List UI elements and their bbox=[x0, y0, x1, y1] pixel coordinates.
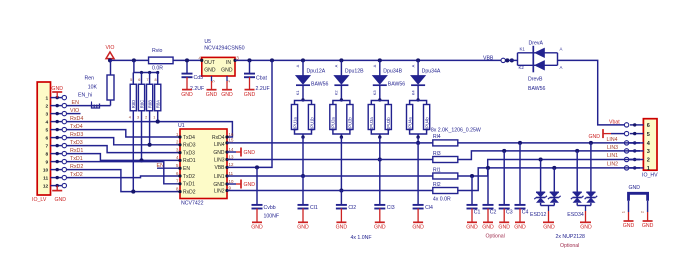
svg-text:Dpu34B: Dpu34B bbox=[383, 69, 402, 75]
svg-text:BAW56: BAW56 bbox=[311, 81, 329, 87]
svg-text:7: 7 bbox=[46, 144, 49, 150]
svg-text:RPU4a: RPU4a bbox=[407, 117, 412, 131]
wire EN stub U1 bbox=[157, 167, 180, 169]
svg-text:RPU3b: RPU3b bbox=[386, 117, 391, 131]
svg-text:3: 3 bbox=[46, 112, 49, 118]
resistor pair RPU2 bbox=[340, 98, 343, 101]
svg-text:A: A bbox=[560, 47, 563, 52]
svg-text:13: 13 bbox=[229, 154, 234, 159]
svg-text:BAW56: BAW56 bbox=[528, 86, 546, 92]
wire LIN2 right bbox=[458, 168, 640, 191]
capacitor C4 bbox=[519, 143, 521, 205]
svg-text:RPU2b: RPU2b bbox=[348, 117, 353, 131]
resistor pair RPU3 bbox=[378, 98, 381, 101]
svg-text:DrevB: DrevB bbox=[528, 76, 543, 82]
resistor array R8 bodies bbox=[132, 73, 134, 85]
resistor pair RPU4 bbox=[416, 98, 419, 101]
op-amp U1 body bbox=[180, 129, 227, 199]
capacitor Cl1 bbox=[302, 176, 304, 205]
wire LIN3 bbox=[227, 159, 433, 161]
wire RxD3 bbox=[67, 138, 181, 145]
svg-text:VIO: VIO bbox=[106, 45, 115, 51]
svg-text:Cl4: Cl4 bbox=[425, 205, 433, 211]
svg-text:6: 6 bbox=[46, 136, 49, 142]
net flag EN_hi bbox=[91, 102, 93, 104]
svg-text:VBB: VBB bbox=[214, 165, 225, 171]
capacitor Cl2 bbox=[340, 191, 342, 205]
wire Drev top branch bbox=[518, 52, 558, 54]
wire ESD34 join bbox=[577, 205, 591, 207]
svg-text:GND: GND bbox=[589, 134, 601, 140]
svg-text:GND: GND bbox=[543, 224, 555, 230]
svg-text:2x NUP2128: 2x NUP2128 bbox=[556, 234, 586, 240]
svg-text:R8B: R8B bbox=[147, 100, 152, 108]
svg-text:GND: GND bbox=[213, 182, 225, 188]
ground IO_HV pin5 bbox=[611, 133, 624, 135]
wire Drev to Vbat bbox=[558, 60, 625, 125]
capacitor Cl3 bbox=[379, 160, 381, 205]
node RxD4 pullup bbox=[156, 120, 160, 124]
svg-text:RxD2: RxD2 bbox=[183, 189, 196, 195]
ground C1 bbox=[471, 209, 473, 223]
svg-text:Cl1: Cl1 bbox=[310, 205, 318, 211]
svg-text:Cvbb: Cvbb bbox=[264, 205, 276, 211]
node VIO rail junction bbox=[108, 58, 112, 62]
svg-text:LIN3: LIN3 bbox=[607, 145, 618, 151]
wire VBB to U1 bbox=[270, 58, 274, 62]
svg-text:RPU2a: RPU2a bbox=[331, 117, 336, 131]
wire LIN1 gap bbox=[624, 159, 640, 161]
svg-text:2: 2 bbox=[46, 104, 49, 110]
ground Cbat bbox=[249, 77, 251, 89]
svg-text:7: 7 bbox=[146, 78, 148, 82]
capacitor C1 bbox=[471, 176, 473, 205]
svg-text:11: 11 bbox=[229, 171, 234, 176]
svg-text:6: 6 bbox=[647, 123, 650, 129]
svg-text:GND: GND bbox=[482, 225, 494, 231]
svg-text:16: 16 bbox=[229, 132, 234, 137]
svg-text:10: 10 bbox=[43, 168, 49, 174]
svg-text:RPU3a: RPU3a bbox=[369, 117, 374, 131]
svg-text:ESD34: ESD34 bbox=[567, 212, 584, 218]
wire R8B lead bbox=[149, 111, 151, 145]
ground Cvbb bbox=[256, 209, 258, 223]
svg-text:3: 3 bbox=[647, 149, 650, 155]
svg-text:RxD4: RxD4 bbox=[212, 135, 225, 141]
svg-text:8: 8 bbox=[155, 78, 157, 82]
svg-text:RxD3: RxD3 bbox=[183, 143, 196, 149]
ground Cl4 bbox=[417, 209, 419, 223]
wire Drev right post bbox=[557, 53, 559, 66]
svg-text:LIN2: LIN2 bbox=[607, 162, 618, 168]
wire resistor top bus bbox=[133, 72, 157, 74]
svg-text:4x 1.0NF: 4x 1.0NF bbox=[351, 235, 372, 241]
wire LIN2 bbox=[227, 190, 433, 192]
svg-text:RPU4b: RPU4b bbox=[424, 117, 429, 131]
svg-text:GND: GND bbox=[244, 182, 256, 188]
svg-text:GND: GND bbox=[221, 68, 233, 74]
svg-text:GND: GND bbox=[213, 150, 225, 156]
svg-text:A: A bbox=[334, 64, 339, 67]
svg-text:A: A bbox=[560, 65, 563, 70]
wire LIN3 right bbox=[458, 151, 640, 160]
svg-text:LIN3: LIN3 bbox=[214, 157, 225, 163]
svg-text:12: 12 bbox=[229, 162, 234, 167]
connector X1 IO_LV body bbox=[37, 82, 50, 195]
ground Cd5 bbox=[186, 77, 188, 89]
svg-text:GND: GND bbox=[629, 185, 641, 191]
svg-text:15: 15 bbox=[229, 138, 234, 143]
wire TxD3 bbox=[67, 146, 181, 153]
svg-text:A: A bbox=[372, 64, 377, 67]
svg-text:6: 6 bbox=[138, 78, 140, 82]
svg-text:2: 2 bbox=[145, 116, 147, 120]
wire R8D lead bbox=[132, 111, 134, 192]
svg-text:GND: GND bbox=[221, 92, 233, 98]
ground pin12 bbox=[56, 186, 58, 191]
svg-text:1: 1 bbox=[46, 96, 49, 102]
svg-text:3: 3 bbox=[137, 116, 139, 120]
wire RxD4 bbox=[67, 122, 233, 137]
svg-text:Cd5: Cd5 bbox=[194, 75, 204, 81]
svg-text:R8D: R8D bbox=[131, 100, 136, 108]
svg-text:NCV7422: NCV7422 bbox=[181, 201, 204, 207]
resistor pair RPU1 bbox=[301, 98, 304, 101]
svg-text:A: A bbox=[295, 64, 300, 67]
wire LIN2 gap bbox=[624, 167, 640, 169]
svg-text:RxD1: RxD1 bbox=[183, 158, 196, 164]
svg-text:9: 9 bbox=[46, 160, 49, 166]
svg-text:K2: K2 bbox=[519, 65, 525, 70]
ground U1 pin bbox=[227, 151, 236, 153]
svg-text:Dpu34A: Dpu34A bbox=[422, 69, 441, 75]
ground ESD34 bbox=[585, 206, 587, 212]
svg-text:C4: C4 bbox=[522, 209, 529, 215]
svg-text:Rl4: Rl4 bbox=[433, 134, 441, 140]
wire LIN1 bbox=[227, 175, 433, 177]
svg-text:BAW56: BAW56 bbox=[388, 81, 406, 87]
svg-text:C3: C3 bbox=[506, 209, 513, 215]
svg-text:C2: C2 bbox=[490, 209, 497, 215]
node Cd5 rail bbox=[185, 58, 189, 62]
svg-text:GND: GND bbox=[642, 223, 654, 229]
svg-text:K2: K2 bbox=[334, 90, 339, 96]
node rail tap resistor bus bbox=[132, 58, 136, 62]
TVS ESD34 diode B bbox=[590, 143, 592, 192]
svg-text:TxD4: TxD4 bbox=[183, 135, 195, 141]
svg-text:GND: GND bbox=[466, 225, 478, 231]
svg-text:GND: GND bbox=[580, 224, 592, 230]
svg-text:Dpu12A: Dpu12A bbox=[307, 69, 326, 75]
jumper SJ1 bbox=[629, 193, 648, 201]
wire LIN1 right bbox=[458, 160, 640, 177]
svg-text:11: 11 bbox=[43, 176, 48, 182]
wire VIO stub bbox=[67, 113, 81, 115]
svg-text:Optional: Optional bbox=[560, 243, 579, 249]
svg-text:OUT: OUT bbox=[204, 60, 215, 66]
connector IO_LV pin leads bbox=[51, 97, 63, 99]
svg-text:EN_hi: EN_hi bbox=[78, 93, 92, 99]
TVS ESD34 diode A bbox=[576, 151, 578, 192]
svg-text:DrevA: DrevA bbox=[529, 40, 544, 46]
node RxD1 pullup bbox=[139, 158, 143, 162]
svg-text:K4: K4 bbox=[410, 90, 415, 96]
svg-text:IO_LV: IO_LV bbox=[32, 197, 47, 203]
svg-text:GND: GND bbox=[251, 225, 263, 231]
capacitor Cl4 bbox=[417, 143, 419, 205]
svg-text:ESD12: ESD12 bbox=[530, 212, 547, 218]
svg-text:14: 14 bbox=[229, 147, 234, 152]
svg-text:TxD2: TxD2 bbox=[183, 174, 195, 180]
svg-text:IN: IN bbox=[226, 60, 231, 66]
svg-text:GND: GND bbox=[244, 92, 256, 98]
ground C4 bbox=[519, 209, 521, 223]
capacitor Cbat bbox=[247, 58, 251, 62]
wire RPU3 to LIN bbox=[379, 137, 381, 159]
ground C2 bbox=[487, 209, 489, 223]
diode Dpu34A bbox=[416, 58, 420, 62]
ground ESD12 bbox=[548, 206, 550, 212]
wire RPU1 to LIN bbox=[302, 137, 304, 176]
svg-text:RPU1b: RPU1b bbox=[309, 117, 314, 131]
svg-text:0.0R: 0.0R bbox=[152, 66, 163, 72]
svg-text:K1: K1 bbox=[295, 90, 300, 96]
svg-text:GND: GND bbox=[297, 225, 309, 231]
svg-text:Vbat: Vbat bbox=[609, 120, 620, 126]
svg-text:GND: GND bbox=[412, 225, 424, 231]
svg-text:GND: GND bbox=[623, 223, 635, 229]
svg-text:IO_HV: IO_HV bbox=[642, 173, 658, 179]
svg-text:4: 4 bbox=[46, 120, 49, 126]
wire RPU2 to LIN bbox=[340, 137, 342, 190]
svg-text:C1: C1 bbox=[474, 209, 481, 215]
svg-text:GND: GND bbox=[55, 197, 67, 203]
node RxD2 pullup bbox=[131, 190, 135, 194]
wire TxD2 bbox=[67, 176, 181, 178]
wire ESD12 join bbox=[541, 205, 555, 207]
svg-text:2: 2 bbox=[647, 158, 650, 164]
svg-text:R8C: R8C bbox=[139, 100, 144, 108]
svg-text:Rvio: Rvio bbox=[152, 48, 162, 54]
capacitor Cvbb bbox=[255, 165, 259, 169]
TVS ESD12 diode A bbox=[540, 160, 542, 193]
svg-text:RPU1a: RPU1a bbox=[292, 117, 297, 131]
svg-text:GND: GND bbox=[181, 92, 193, 98]
ground Cl3 bbox=[379, 209, 381, 223]
svg-text:4x 0.0R: 4x 0.0R bbox=[433, 197, 451, 203]
wire EN row bbox=[67, 105, 111, 107]
svg-text:5: 5 bbox=[130, 78, 132, 82]
wire R8A lead bbox=[157, 111, 159, 122]
jumper pin2 lead bbox=[647, 201, 649, 212]
wire Drev left post bbox=[517, 53, 519, 66]
svg-text:GND: GND bbox=[514, 225, 526, 231]
wire VIO rail bbox=[110, 59, 148, 61]
svg-text:GND: GND bbox=[374, 225, 386, 231]
svg-text:12: 12 bbox=[43, 184, 49, 190]
ground pin1 bbox=[56, 92, 58, 98]
svg-text:8x 2.0K_1206_0.25W: 8x 2.0K_1206_0.25W bbox=[431, 127, 481, 133]
svg-text:TxD1: TxD1 bbox=[183, 182, 195, 188]
node RxD3 pullup bbox=[148, 143, 152, 147]
wire RxD1 bbox=[67, 154, 181, 161]
capacitor C3 bbox=[503, 151, 505, 205]
wire resistor bus riser bbox=[133, 60, 135, 72]
svg-text:Cbat: Cbat bbox=[256, 75, 268, 81]
test point VBB bbox=[501, 58, 505, 62]
svg-text:Cl3: Cl3 bbox=[387, 205, 395, 211]
svg-text:4: 4 bbox=[129, 116, 131, 120]
ground Cl1 bbox=[302, 209, 304, 223]
svg-text:NCV4294CSN50: NCV4294CSN50 bbox=[204, 45, 244, 51]
svg-text:2.2UF: 2.2UF bbox=[256, 86, 270, 92]
IC U5 body bbox=[202, 57, 235, 76]
svg-text:10: 10 bbox=[229, 179, 234, 184]
capacitor C2 bbox=[487, 168, 489, 205]
svg-text:Cl2: Cl2 bbox=[348, 205, 356, 211]
svg-text:1: 1 bbox=[647, 166, 650, 172]
svg-text:10K: 10K bbox=[88, 85, 98, 91]
wire LIN4 bbox=[227, 142, 433, 144]
svg-text:TxD3: TxD3 bbox=[183, 150, 195, 156]
wire RPU4 to LIN bbox=[417, 137, 419, 143]
svg-text:5: 5 bbox=[46, 128, 49, 134]
TVS ESD12 diode B bbox=[553, 168, 555, 192]
connector X2 IO_HV body bbox=[643, 119, 657, 171]
ground jumper 2 bbox=[647, 212, 649, 221]
capacitor Cd5 bbox=[186, 60, 188, 73]
diode Dpu34B bbox=[378, 58, 382, 62]
wire into Drev bridge bbox=[509, 59, 518, 61]
svg-text:K3: K3 bbox=[372, 90, 377, 96]
svg-text:GND: GND bbox=[498, 225, 510, 231]
wire LIN4 gap bbox=[624, 142, 640, 144]
wire LIN4 right bbox=[458, 142, 640, 144]
svg-text:LIN4: LIN4 bbox=[214, 142, 225, 148]
svg-text:U5: U5 bbox=[204, 39, 211, 45]
svg-text:LIN1: LIN1 bbox=[214, 174, 225, 180]
jumper pin1 lead bbox=[628, 201, 630, 212]
ground jumper 1 bbox=[628, 212, 630, 221]
ground Cl2 bbox=[340, 209, 342, 223]
diode Dpu12B bbox=[339, 58, 343, 62]
svg-text:LIN1: LIN1 bbox=[607, 153, 618, 159]
svg-text:K1: K1 bbox=[520, 47, 526, 52]
svg-text:LIN4: LIN4 bbox=[607, 137, 618, 143]
svg-text:LIN2: LIN2 bbox=[214, 188, 225, 194]
svg-text:GND: GND bbox=[336, 225, 348, 231]
svg-text:U1: U1 bbox=[178, 123, 185, 129]
svg-text:GND: GND bbox=[51, 86, 63, 92]
svg-text:100NF: 100NF bbox=[264, 214, 280, 220]
connector IO_HV pins bbox=[630, 124, 643, 126]
wire Drev bottom branch bbox=[518, 64, 558, 66]
wire RxD2 bbox=[67, 170, 181, 192]
svg-text:GND: GND bbox=[244, 150, 256, 156]
wire VBB rail bbox=[235, 59, 509, 61]
wire R8C lead bbox=[141, 111, 143, 161]
svg-text:Optional: Optional bbox=[486, 234, 505, 240]
svg-text:1: 1 bbox=[153, 116, 155, 120]
svg-text:VBB: VBB bbox=[483, 55, 494, 61]
diode DrevB bbox=[534, 60, 545, 70]
wire TxD4 bbox=[67, 130, 181, 137]
svg-text:EN: EN bbox=[183, 166, 190, 172]
svg-text:Ren: Ren bbox=[84, 76, 94, 82]
svg-text:GND: GND bbox=[206, 92, 218, 98]
svg-text:Dpu12B: Dpu12B bbox=[345, 69, 364, 75]
ground C3 bbox=[503, 209, 505, 223]
diode DrevA bbox=[534, 48, 545, 58]
svg-text:8: 8 bbox=[46, 152, 49, 158]
wire TxD1 bbox=[67, 162, 181, 184]
svg-text:GND: GND bbox=[204, 68, 216, 74]
ground U1 pin bbox=[227, 183, 236, 185]
svg-text:3: 3 bbox=[236, 55, 239, 60]
wire Rvio to U5 bbox=[173, 59, 202, 61]
svg-text:A: A bbox=[410, 64, 415, 67]
diode Dpu12A bbox=[301, 58, 305, 62]
wire LIN3 gap bbox=[624, 150, 640, 152]
svg-text:R8A: R8A bbox=[156, 100, 161, 108]
svg-text:5: 5 bbox=[647, 132, 650, 138]
